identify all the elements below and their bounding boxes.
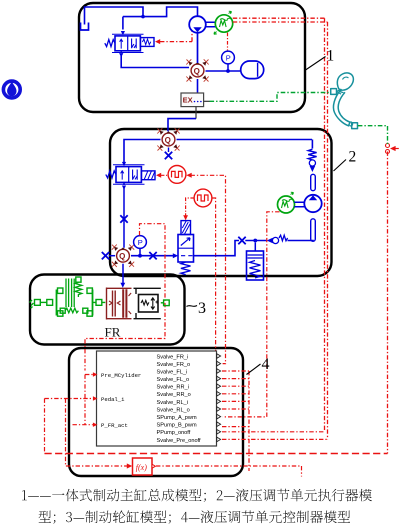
exhaust block EX — [181, 93, 204, 107]
label 2 — [334, 160, 347, 172]
wire Q1 bottom to EX — [197, 79, 199, 93]
low pressure accumulator LPA — [254, 243, 256, 252]
svg-text:Svalve_Pre_onoff: Svalve_Pre_onoff — [157, 438, 202, 444]
valve V1 body — [115, 36, 140, 51]
svg-text:P: P — [138, 238, 143, 247]
check valve CV2 — [267, 238, 273, 244]
box 2 border (HCU actuator model) — [110, 129, 332, 276]
wire Q3 down to caliper — [122, 264, 124, 284]
input arrow P_FR_act — [73, 375, 93, 425]
input arrow Pedal_i — [45, 398, 93, 400]
wire tank to top bus — [85, 7, 144, 25]
svg-text:4: 4 — [262, 356, 270, 373]
M1 to pressure sensor PS1 signal — [227, 33, 229, 51]
shaft P1-M1 — [206, 22, 216, 26]
relief valve RV body — [178, 235, 194, 263]
red vertical right rail A — [324, 18, 326, 432]
pipe capsule PC1 — [311, 174, 316, 190]
svg-text:FR: FR — [105, 325, 121, 340]
green signal EX to pedal — [210, 93, 331, 102]
wire V2 bottom to Q3 — [123, 182, 125, 247]
label 4 — [247, 364, 261, 375]
PS2 signal to box3/box4 — [85, 224, 165, 371]
input arrow Pre_MCylider — [85, 374, 93, 376]
valve V2 spring — [106, 171, 116, 178]
PWM source R1 — [168, 166, 186, 184]
svg-text:Svalve_FR_i: Svalve_FR_i — [157, 354, 189, 360]
M2 signal feed — [223, 212, 280, 417]
pressure sensor PS1 — [222, 51, 235, 64]
tank T1 — [81, 23, 89, 31]
wire top bus to pump — [123, 7, 198, 17]
R2 to relief valve RV solenoid — [186, 198, 194, 216]
valve V1 left cell arrow — [120, 39, 123, 48]
svg-text:2: 2 — [349, 149, 357, 166]
output row wires — [222, 371, 328, 471]
node j1 — [141, 15, 145, 19]
valve V2 right cell symbols — [133, 170, 138, 180]
accumulator A1 — [241, 61, 264, 79]
fx function block — [66, 399, 130, 467]
motor M1 signal outputs (double red) — [233, 18, 328, 22]
valve V1 solenoid — [140, 38, 154, 47]
valve V2 top port arrow — [122, 162, 126, 166]
node circles at pedal signal — [386, 144, 390, 148]
pressure sensor PS2 — [134, 236, 147, 249]
arrow into relief valve left port — [173, 253, 178, 258]
valve V1 spring — [105, 40, 115, 47]
svg-text:Pre_MCylider: Pre_MCylider — [101, 372, 141, 379]
flow sensor Q3 — [112, 245, 134, 267]
right connector (green) — [161, 302, 164, 304]
valve V1 rails — [112, 34, 144, 52]
relief valve RV spring — [181, 262, 191, 275]
check valve CV1 — [310, 166, 316, 172]
relief valve RV solenoid — [181, 221, 191, 235]
valve V2 rails — [113, 165, 145, 184]
EX output stub — [204, 100, 210, 102]
svg-text:f(x): f(x) — [136, 463, 147, 472]
ground anchor G1 — [30, 300, 53, 309]
svg-text:Svalve_RL_o: Svalve_RL_o — [157, 407, 190, 413]
shaft M2-P2 — [294, 202, 304, 206]
wire EX to Q2 — [168, 119, 196, 132]
brake pad mass-spring assembly (green) — [57, 277, 106, 316]
plug X2 left of Q3 — [102, 252, 109, 259]
pump P1 — [189, 16, 206, 33]
flow sensor Q1 — [186, 59, 208, 81]
svg-text:Svalve_FR_o: Svalve_FR_o — [157, 362, 191, 368]
controller block — [97, 351, 217, 446]
label 3 — [187, 306, 198, 307]
valve V1 bottom port — [120, 51, 122, 53]
plug X3 on wire — [149, 252, 156, 259]
pipe capsule PC2 — [311, 219, 316, 242]
svg-text:P_FR_act: P_FR_act — [101, 422, 128, 429]
svg-text:P: P — [226, 53, 231, 62]
wire Q2 left to valve V2 — [124, 140, 161, 163]
svg-text:Svalve_RR_i: Svalve_RR_i — [157, 385, 189, 391]
svg-text:Q: Q — [194, 67, 200, 76]
signal into V1 solenoid — [155, 39, 160, 44]
wire bus down to valve V1 top — [122, 17, 124, 30]
node j3 — [138, 254, 142, 258]
box 1 border (master cylinder assembly model) — [79, 3, 305, 112]
signal feed to R2 — [212, 198, 219, 356]
svg-text:Svalve_RR_o: Svalve_RR_o — [157, 392, 191, 398]
svg-text:SPump_B_pwm: SPump_B_pwm — [157, 423, 197, 429]
wire Q3 right to relief valve — [131, 255, 174, 257]
box 4 border (HCU controller model) — [69, 348, 243, 476]
svg-text:Svalve_FL_o: Svalve_FL_o — [157, 377, 190, 383]
Q2 bottom plug X — [168, 148, 170, 153]
output ports and labels — [157, 354, 202, 443]
wheel/disc unit (black) — [134, 288, 161, 318]
motor M1 (prime mover) — [215, 15, 232, 32]
valve V2 body — [116, 167, 141, 183]
pump P2 — [304, 195, 321, 212]
svg-text:1: 1 — [327, 48, 335, 65]
wire pump P1 to Q1 — [197, 33, 199, 63]
valve V2 left cell arrow — [121, 171, 124, 180]
EX bottom stub — [195, 107, 197, 119]
wire Q1 right to junction and accumulator — [206, 70, 241, 72]
green signal pedal to right rail — [358, 126, 388, 144]
box 3 border (wheel cylinder model) — [30, 275, 185, 345]
svg-text:SPump_A_pwm: SPump_A_pwm — [157, 415, 197, 421]
red vertical right rail B — [327, 22, 329, 439]
svg-text:PPump_onoff: PPump_onoff — [157, 430, 191, 436]
node j4 — [253, 239, 257, 243]
pedal bus bottom — [44, 399, 46, 454]
signal feed to R1 — [186, 173, 191, 178]
svg-text:Svalve_FL_i: Svalve_FL_i — [157, 369, 188, 375]
wire RV right to check valve branch — [194, 241, 239, 256]
svg-text:Pedal_i: Pedal_i — [101, 396, 125, 403]
svg-text:Q: Q — [165, 136, 171, 145]
valve V1 right cell symbols — [132, 39, 137, 49]
label 1 — [306, 57, 326, 71]
PWM source R2 — [194, 189, 212, 207]
brake caliper (dark red) — [107, 288, 132, 320]
flow sensor Q2 — [157, 128, 179, 150]
motor M2 — [278, 196, 295, 213]
valve V2 solenoid — [141, 171, 155, 180]
plug X4 on wire — [238, 237, 245, 244]
node j2 — [226, 69, 230, 73]
signal arrow into V2 solenoid — [156, 173, 161, 178]
wire Q2 right to pump branch — [177, 139, 313, 141]
plug X1 on wire — [120, 215, 127, 222]
svg-text:EX: EX — [183, 95, 193, 104]
svg-text:Svalve_RL_i: Svalve_RL_i — [157, 400, 188, 406]
svg-text:3: 3 — [198, 300, 206, 317]
svg-text:Q: Q — [119, 252, 125, 261]
